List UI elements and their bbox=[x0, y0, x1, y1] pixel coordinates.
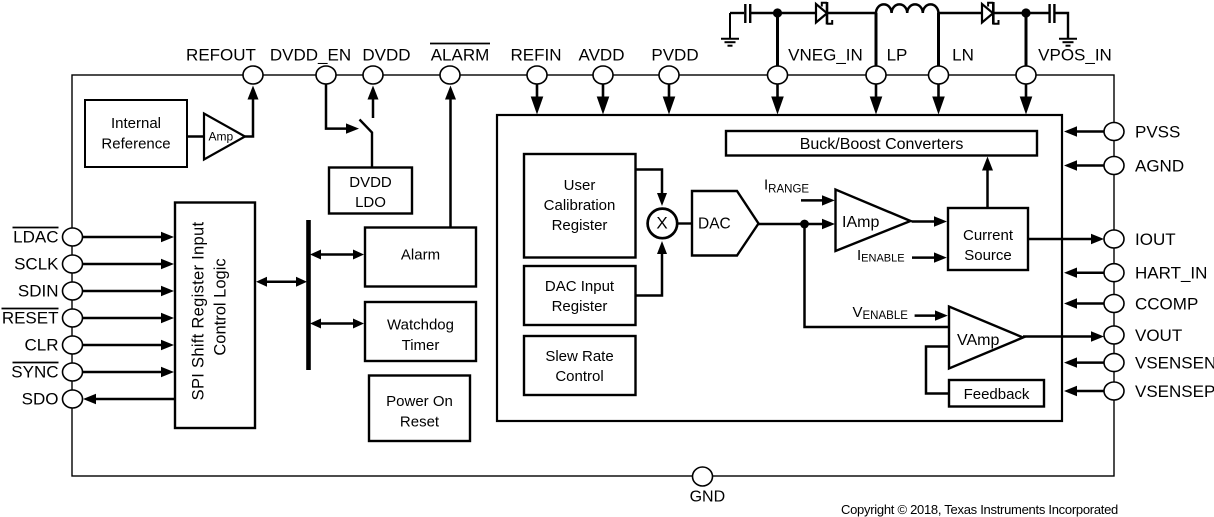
svg-text:DAC: DAC bbox=[698, 216, 731, 233]
block Buck/Boost Converters bbox=[726, 131, 1037, 156]
arrow IAmp to Current Source bbox=[912, 216, 948, 226]
svg-text:GND: GND bbox=[690, 488, 726, 505]
svg-text:SDIN: SDIN bbox=[18, 282, 59, 301]
wire Current Source to IOUT bbox=[1028, 234, 1104, 244]
wire D1 to inductor bbox=[827, 12, 876, 14]
svg-text:IAmp: IAmp bbox=[842, 214, 879, 231]
svg-text:Slew Rate: Slew Rate bbox=[545, 348, 613, 365]
svg-text:Timer: Timer bbox=[402, 337, 440, 354]
pin PVDD bbox=[659, 66, 679, 84]
capacitor C1 bbox=[745, 4, 750, 23]
svg-text:IRANGE: IRANGE bbox=[764, 177, 809, 196]
pin SYNC (with overline) bbox=[63, 363, 83, 381]
svg-text:AGND: AGND bbox=[1135, 157, 1184, 176]
arrow VNEG_IN into analog block bbox=[771, 85, 784, 115]
arrow LDAC to SPI bbox=[83, 232, 175, 242]
svg-text:REFIN: REFIN bbox=[511, 46, 562, 65]
svg-text:LDO: LDO bbox=[355, 194, 386, 211]
arrow Current Source to Buck/Boost bbox=[982, 157, 993, 209]
svg-text:DVDD: DVDD bbox=[362, 46, 410, 65]
analog block boundary bbox=[497, 115, 1062, 421]
block Watchdog Timer bbox=[365, 302, 476, 361]
svg-text:SCLK: SCLK bbox=[14, 255, 59, 274]
chip outer boundary bbox=[72, 75, 1114, 476]
wire inductor to diode D2 bbox=[939, 12, 983, 14]
pin ALARM (with overline) bbox=[440, 66, 460, 84]
pin GND bbox=[693, 467, 713, 486]
bus line bbox=[306, 220, 311, 370]
svg-text:Reference: Reference bbox=[101, 136, 170, 153]
double arrow SPI to bus bbox=[256, 277, 307, 287]
svg-text:Amp: Amp bbox=[209, 130, 234, 144]
svg-text:CCOMP: CCOMP bbox=[1135, 295, 1198, 314]
wire DAC Input to multiplier bbox=[636, 241, 668, 296]
arrow AVDD into analog block bbox=[597, 85, 610, 115]
arrow REFIN into analog block bbox=[531, 85, 544, 115]
svg-text:REFOUT: REFOUT bbox=[186, 46, 256, 65]
block Power On Reset bbox=[369, 376, 470, 442]
wire DAC to IAmp with junction bbox=[759, 219, 836, 229]
block DAC Input Register bbox=[524, 266, 636, 325]
svg-text:SYNC: SYNC bbox=[11, 363, 58, 382]
svg-text:Feedback: Feedback bbox=[964, 386, 1030, 403]
double arrow bus to Watchdog bbox=[310, 319, 364, 329]
svg-text:LP: LP bbox=[887, 46, 908, 65]
svg-text:Watchdog: Watchdog bbox=[387, 317, 454, 334]
svg-text:AVDD: AVDD bbox=[579, 46, 625, 65]
wire X to DAC bbox=[676, 222, 692, 224]
op-amp Amp bbox=[204, 114, 245, 160]
arrow VPOS_IN into analog block bbox=[1020, 85, 1033, 115]
svg-text:User: User bbox=[564, 177, 596, 194]
wire ground to capacitor C1 bbox=[730, 12, 744, 14]
arrow LP into analog block bbox=[870, 85, 883, 115]
svg-text:VPOS_IN: VPOS_IN bbox=[1038, 46, 1112, 65]
block SPI Shift Register Input Control Logic bbox=[175, 203, 255, 429]
junction node VNEG bbox=[773, 8, 782, 17]
svg-text:PVDD: PVDD bbox=[651, 46, 698, 65]
svg-text:LN: LN bbox=[952, 46, 974, 65]
arrow RESET to SPI bbox=[83, 313, 175, 323]
pin VNEG_IN bbox=[768, 66, 788, 84]
svg-text:ALARM: ALARM bbox=[431, 46, 490, 65]
svg-text:VSENSEP: VSENSEP bbox=[1135, 382, 1214, 401]
svg-text:LDAC: LDAC bbox=[13, 228, 58, 247]
arrow PVDD into analog block bbox=[663, 85, 676, 115]
svg-text:VSENSEN: VSENSEN bbox=[1135, 354, 1214, 373]
pin SDIN bbox=[63, 282, 83, 300]
svg-text:Control: Control bbox=[555, 368, 603, 385]
block Internal Reference bbox=[85, 100, 187, 167]
svg-text:Power On: Power On bbox=[386, 393, 453, 410]
arrow SPI to SDO bbox=[83, 394, 175, 404]
pin RESET (with overline) bbox=[63, 309, 83, 327]
svg-text:DVDD_EN: DVDD_EN bbox=[270, 46, 351, 65]
arrow CLR to SPI bbox=[83, 340, 175, 350]
op-amp IAmp bbox=[836, 190, 911, 252]
svg-text:RESET: RESET bbox=[2, 309, 59, 328]
svg-text:Calibration: Calibration bbox=[544, 197, 616, 214]
wire D2 to capacitor C2 bbox=[993, 12, 1049, 14]
pin REFIN bbox=[527, 66, 547, 84]
svg-text:VENABLE: VENABLE bbox=[853, 304, 909, 322]
double arrow bus to Alarm bbox=[310, 250, 364, 260]
pin HART_IN bbox=[1064, 268, 1104, 278]
svg-text:HART_IN: HART_IN bbox=[1135, 264, 1207, 283]
pin VSENSEN bbox=[1064, 357, 1104, 367]
wire ALARM arrow up from Alarm block bbox=[445, 86, 456, 228]
wire LP drop bbox=[875, 13, 878, 66]
wire reference to amp bbox=[187, 135, 204, 137]
pin AVDD bbox=[593, 66, 613, 84]
svg-text:PVSS: PVSS bbox=[1135, 123, 1180, 142]
svg-text:Current: Current bbox=[963, 227, 1014, 244]
arrow LN into analog block bbox=[932, 85, 945, 115]
pin VPOS_IN bbox=[1016, 66, 1036, 84]
pin PVSS bbox=[1064, 126, 1104, 136]
ground (top-right) bbox=[1059, 39, 1077, 46]
wire junction to VAmp bbox=[805, 224, 949, 327]
pin SCLK bbox=[63, 255, 83, 273]
svg-text:Internal: Internal bbox=[111, 115, 161, 132]
svg-text:Control Logic: Control Logic bbox=[212, 258, 230, 355]
pin DVDD bbox=[363, 66, 383, 84]
block User Calibration Register bbox=[524, 154, 636, 258]
ground (top-left) bbox=[721, 13, 739, 46]
wire DVDD arrow up bbox=[368, 86, 379, 119]
op-amp VAmp bbox=[949, 307, 1023, 369]
svg-text:Register: Register bbox=[552, 217, 608, 234]
pin AGND bbox=[1064, 160, 1104, 170]
pin LN bbox=[929, 66, 949, 84]
wire C1 to diode D1 bbox=[750, 12, 816, 14]
svg-text:DAC Input: DAC Input bbox=[545, 278, 615, 295]
svg-text:Register: Register bbox=[552, 298, 608, 315]
wire DVDD_EN to switch bbox=[326, 85, 359, 134]
wire amp to REFOUT with arrow bbox=[245, 86, 259, 137]
diode D2 (schottky) bbox=[982, 2, 999, 25]
block DVDD LDO bbox=[329, 168, 412, 214]
svg-text:Copyright © 2018, Texas Instru: Copyright © 2018, Texas Instruments Inco… bbox=[841, 502, 1118, 517]
pin REFOUT bbox=[243, 66, 263, 84]
arrow VENABLE into VAmp bbox=[915, 310, 948, 320]
svg-text:Alarm: Alarm bbox=[401, 247, 440, 264]
svg-text:IENABLE: IENABLE bbox=[857, 247, 905, 265]
pin VSENSEP bbox=[1064, 386, 1104, 396]
junction node bbox=[800, 220, 809, 229]
DAC converter bbox=[692, 191, 759, 256]
svg-text:CLR: CLR bbox=[24, 336, 58, 355]
switch SW1 bbox=[360, 120, 373, 168]
arrow SDIN to SPI bbox=[83, 286, 175, 296]
wire VPOS_IN drop bbox=[1025, 13, 1028, 66]
wire LN drop bbox=[937, 13, 940, 66]
feedback loop wire bbox=[926, 347, 948, 394]
pin SDO bbox=[63, 390, 83, 408]
capacitor C2 bbox=[1050, 4, 1055, 23]
pin VOUT bbox=[1104, 326, 1124, 344]
junction node VPOS bbox=[1021, 8, 1030, 17]
wire VNEG_IN drop bbox=[776, 13, 779, 66]
svg-text:VNEG_IN: VNEG_IN bbox=[788, 46, 863, 65]
pin LP bbox=[866, 66, 886, 84]
block Alarm bbox=[365, 228, 476, 287]
multiplier X bbox=[648, 209, 678, 239]
svg-text:Buck/Boost Converters: Buck/Boost Converters bbox=[800, 136, 964, 153]
pin DVDD_EN bbox=[316, 66, 336, 84]
block Slew Rate Control bbox=[524, 336, 636, 395]
block Current Source bbox=[948, 208, 1028, 270]
wire C2 to ground bbox=[1054, 13, 1068, 38]
svg-text:DVDD: DVDD bbox=[349, 174, 392, 191]
svg-text:X: X bbox=[656, 213, 667, 232]
svg-text:SPI Shift Register Input: SPI Shift Register Input bbox=[190, 222, 208, 401]
pin LDAC (with overline) bbox=[63, 228, 83, 246]
arrow IRANGE into IAmp bbox=[801, 195, 835, 205]
svg-text:Reset: Reset bbox=[400, 414, 440, 431]
wire VAmp to VOUT bbox=[1023, 331, 1104, 341]
svg-text:Source: Source bbox=[964, 247, 1012, 264]
svg-text:IOUT: IOUT bbox=[1135, 230, 1176, 249]
svg-text:VOUT: VOUT bbox=[1135, 326, 1182, 345]
arrow SCLK to SPI bbox=[83, 259, 175, 269]
pin CLR bbox=[63, 336, 83, 354]
pin IOUT bbox=[1104, 230, 1124, 248]
svg-text:SDO: SDO bbox=[22, 390, 59, 409]
arrow SYNC to SPI bbox=[83, 367, 175, 377]
diode D1 (schottky) bbox=[816, 2, 832, 25]
inductor L1 bbox=[876, 4, 938, 13]
wire User Cal to multiplier bbox=[636, 170, 668, 207]
pin CCOMP bbox=[1064, 298, 1104, 308]
block Feedback bbox=[949, 380, 1044, 407]
arrow IENABLE into Current Source bbox=[912, 252, 947, 262]
svg-text:VAmp: VAmp bbox=[957, 332, 999, 349]
